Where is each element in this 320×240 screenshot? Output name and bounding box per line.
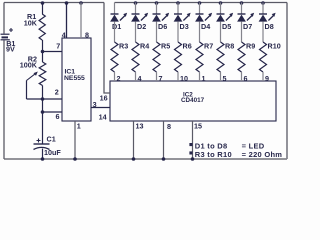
resistor R5 — [153, 42, 160, 72]
battery B1 positive plate — [1, 33, 10, 35]
svg-text:D3: D3 — [180, 22, 189, 31]
node: top rail junction D7 — [240, 1, 244, 14]
svg-text:14: 14 — [99, 112, 107, 121]
svg-text:100K: 100K — [20, 61, 38, 70]
svg-text:6: 6 — [56, 112, 60, 121]
IC2 CD4017 box — [110, 81, 276, 121]
svg-text:= 220 Ohm: = 220 Ohm — [242, 150, 283, 159]
wire: LED rail corner at D1 column — [114, 3, 116, 15]
svg-text:R4: R4 — [140, 41, 149, 50]
potentiometer wiper arrow — [27, 72, 38, 81]
wire: D5 to R8 — [220, 22, 222, 42]
LED D6 — [152, 13, 169, 22]
svg-text:D4: D4 — [201, 22, 210, 31]
note: D1 to D8 = LED — [189, 141, 264, 150]
node: top rail junction at R1 — [41, 1, 45, 5]
svg-text:NE555: NE555 — [64, 75, 85, 82]
svg-text:D8: D8 — [265, 22, 274, 31]
svg-text:CD4017: CD4017 — [181, 97, 205, 104]
battery B1 second positive plate — [1, 39, 10, 41]
svg-text:R8: R8 — [225, 41, 234, 50]
svg-text:1: 1 — [202, 74, 206, 83]
resistor R7 — [196, 42, 203, 72]
wire: +9V top rail from battery to pin16 corner — [4, 2, 104, 4]
wire: IC2 pin 13 to ground — [132, 121, 136, 161]
svg-text:3: 3 — [93, 100, 97, 109]
wire: left border bottom segment battery - to ground — [3, 41, 5, 160]
resistor R2 (potentiometer) — [39, 62, 46, 86]
node: top rail junction D8 — [261, 1, 265, 14]
wire: pin2 node to pin6 node — [42, 99, 44, 112]
node: top rail junction D3 — [176, 1, 180, 14]
wire: C1 to ground rail — [42, 149, 44, 159]
wire: to IC1 pin 7 — [43, 51, 63, 53]
svg-text:9: 9 — [265, 74, 269, 83]
svg-text:R5: R5 — [161, 41, 170, 50]
wire: R9 to IC2 pin 6 — [241, 72, 243, 81]
wire: IC2 pin 16 to +9V rail — [104, 3, 110, 94]
note: R3 to R10 = 220 Ohm — [189, 150, 282, 159]
wire: pin6 node down to C1 — [42, 112, 44, 144]
IC1 NE555 box — [62, 38, 91, 121]
svg-text:9V: 9V — [6, 45, 15, 54]
svg-text:R6: R6 — [183, 41, 192, 50]
svg-text:D6: D6 — [158, 22, 167, 31]
wire: R10 to IC2 pin 9 — [262, 72, 264, 81]
svg-text:4: 4 — [138, 74, 142, 83]
wire: wiper down to pin2 net — [26, 81, 28, 100]
capacitor C1 top plate — [34, 143, 50, 145]
wire: D6 to R5 — [156, 22, 158, 42]
capacitor plus sign — [37, 139, 41, 143]
battery B1 negative plate — [2, 36, 9, 38]
wire: D2 to R4 — [135, 22, 137, 42]
svg-text:15: 15 — [194, 122, 202, 131]
LED D4 — [195, 13, 212, 22]
wire: R7 to IC2 pin 1 — [199, 72, 201, 81]
battery plus sign — [9, 28, 13, 32]
wire: LED cathode top rail — [115, 2, 288, 4]
LED D5 — [216, 13, 233, 22]
resistor R1 — [39, 14, 45, 40]
LED D8 — [259, 13, 276, 22]
svg-text:R3 to R10: R3 to R10 — [195, 150, 232, 159]
svg-text:7: 7 — [56, 42, 60, 51]
svg-text:D7: D7 — [243, 22, 252, 31]
resistor R8 — [217, 42, 224, 72]
wire: right border down to ground rail — [286, 3, 288, 160]
wire: R8 to IC2 pin 5 — [220, 72, 222, 81]
svg-text:8: 8 — [85, 30, 89, 39]
node: top rail junction D6 — [155, 1, 159, 14]
svg-text:D1: D1 — [112, 22, 121, 31]
svg-text:D5: D5 — [222, 22, 231, 31]
wire: IC1 pin 4 to top rail — [65, 1, 69, 38]
resistor R6 — [175, 42, 182, 72]
wire: D3 to R6 — [177, 22, 179, 42]
svg-text:R10: R10 — [268, 41, 281, 50]
wire: IC2 pin 8 to ground — [162, 121, 166, 161]
wire: IC1 pin 3 to IC2 pin 14 — [91, 107, 110, 109]
wire: D7 to R9 — [241, 22, 243, 42]
node: ground junction at C1 — [41, 157, 45, 161]
svg-text:5: 5 — [223, 74, 227, 83]
capacitor C1 curved plate — [34, 147, 50, 149]
LED D7 — [237, 13, 254, 22]
wire: R1 bottom to junction — [42, 40, 44, 62]
svg-text:4: 4 — [62, 30, 66, 39]
resistor R4 — [132, 42, 139, 72]
wire: D4 to R7 — [199, 22, 201, 42]
svg-text:2: 2 — [55, 87, 59, 96]
wire: IC2 pin 15 to ground — [191, 121, 195, 161]
LED D2 — [131, 13, 148, 22]
wire: D1 to R3 — [114, 22, 116, 42]
wire: top rail to R1 — [42, 3, 44, 15]
LED D1 — [110, 13, 127, 22]
node: junction on pin6 net — [41, 110, 45, 114]
wire: R4 to IC2 pin 4 — [135, 72, 137, 81]
svg-text:7: 7 — [159, 74, 163, 83]
svg-text:10: 10 — [180, 74, 188, 83]
svg-text:10K: 10K — [24, 18, 38, 27]
svg-text:R3: R3 — [119, 41, 128, 50]
resistor R9 — [238, 42, 245, 72]
svg-text:D2: D2 — [137, 22, 146, 31]
resistor R3 — [111, 42, 118, 72]
wire: R2 bottom to pin2 junction — [42, 86, 44, 100]
resistor R10 — [260, 42, 267, 72]
svg-text:6: 6 — [244, 74, 248, 83]
svg-text:2: 2 — [117, 74, 121, 83]
wire: R6 to IC2 pin 10 — [177, 72, 179, 81]
wire: D8 to R10 — [262, 22, 264, 42]
svg-text:13: 13 — [136, 122, 144, 131]
svg-text:C1: C1 — [47, 134, 56, 143]
wire: ground bottom rail — [4, 158, 287, 160]
wire: pin 6 net horizontal — [43, 111, 63, 113]
LED D3 — [174, 13, 191, 22]
node: junction on pin2 net — [41, 97, 45, 101]
wire: R3 to IC2 pin 2 — [114, 72, 116, 81]
svg-text:1: 1 — [77, 121, 81, 130]
svg-text:8: 8 — [167, 122, 171, 131]
node: top rail junction D5 — [219, 1, 223, 14]
wire: IC1 pin 8 to top rail — [79, 1, 83, 38]
wire: IC1 pin 1 to ground — [73, 121, 77, 161]
node: junction R1/R2/pin7 — [41, 50, 45, 54]
wire: pin 2 net horizontal — [27, 98, 63, 100]
node: top rail junction D2 — [134, 1, 138, 14]
node: top rail junction D4 — [198, 1, 202, 14]
svg-text:R9: R9 — [246, 41, 255, 50]
svg-text:10uF: 10uF — [44, 148, 61, 157]
wire: left border top segment to battery + — [3, 3, 5, 34]
svg-text:R7: R7 — [204, 41, 213, 50]
wire: R5 to IC2 pin 7 — [156, 72, 158, 81]
svg-text:16: 16 — [100, 93, 108, 102]
